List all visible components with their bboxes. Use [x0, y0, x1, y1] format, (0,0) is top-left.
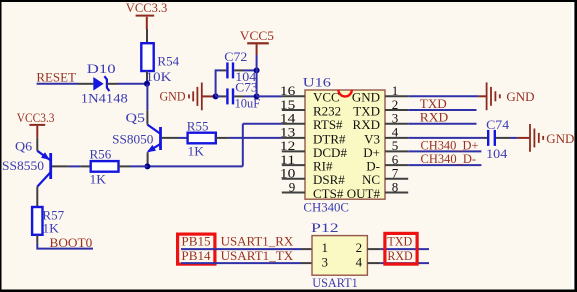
svg-text:R56: R56: [90, 146, 112, 161]
resistor R56: [90, 146, 119, 186]
wire Q6 collector down: [36, 187, 38, 207]
red highlight box PB15/PB14: [178, 234, 215, 264]
svg-text:4: 4: [356, 254, 363, 269]
ground GND (middle, C72/C73): [160, 83, 216, 111]
svg-text:USART1: USART1: [312, 275, 357, 290]
svg-text:BOOT0: BOOT0: [50, 235, 93, 250]
svg-text:VCC5: VCC5: [240, 28, 274, 43]
svg-text:VCC3.3: VCC3.3: [17, 110, 55, 125]
svg-text:Q5: Q5: [126, 110, 146, 125]
chip left pin names: [313, 90, 347, 201]
chip right pin numbers: [392, 83, 399, 194]
chip right pins 1..8: [385, 96, 408, 192]
node junction R54/D10/Q5: [144, 81, 150, 87]
svg-text:9: 9: [289, 179, 296, 194]
wire Q5 base to R55: [178, 137, 187, 139]
resistor R54: [141, 43, 179, 84]
red highlight box TXD/RXD: [385, 233, 417, 264]
wire pin4 to C74: [408, 137, 483, 139]
svg-text:1K: 1K: [42, 220, 59, 235]
svg-text:TXD: TXD: [420, 96, 447, 111]
power port VCC3.3 (left, over Q6): [17, 110, 55, 138]
wire P12 pin4 to RXD: [381, 262, 429, 264]
frame border right: [574, 0, 577, 292]
svg-text:GND: GND: [160, 88, 186, 103]
svg-text:RXD: RXD: [353, 117, 380, 132]
svg-text:TXD: TXD: [387, 234, 412, 249]
connector P12 USART1: [311, 220, 367, 290]
wire VCC5 down: [256, 55, 258, 96]
wire R57 bottom pin: [36, 235, 38, 244]
svg-text:USART1_TX: USART1_TX: [221, 248, 294, 263]
svg-text:8: 8: [392, 179, 399, 194]
svg-text:GND: GND: [546, 131, 574, 146]
svg-text:2: 2: [356, 240, 363, 255]
wire R54 bottom pin: [146, 71, 148, 80]
svg-text:D10: D10: [87, 61, 116, 76]
power port VCC3.3 (top, over R54): [126, 0, 168, 29]
node junction Q5 emitter / R56: [144, 163, 150, 169]
svg-text:RTS#: RTS#: [313, 117, 343, 132]
svg-text:14: 14: [280, 111, 296, 126]
ground GND (right of pin1): [478, 82, 534, 110]
frame border left: [0, 0, 2, 292]
wire R56 right pin: [119, 165, 131, 167]
svg-text:RESET: RESET: [36, 70, 76, 85]
node junction C73/pin16: [254, 93, 260, 99]
svg-text:C74: C74: [486, 117, 510, 132]
svg-text:PB14: PB14: [181, 248, 211, 263]
svg-text:C73: C73: [235, 80, 257, 95]
op IC U16 CH340C body: [303, 74, 385, 214]
chip right pin names: [347, 90, 381, 201]
wire BOOT0: [37, 244, 93, 249]
svg-text:SS8550: SS8550: [2, 158, 44, 173]
svg-text:10K: 10K: [146, 69, 172, 84]
resistor R55: [187, 119, 216, 159]
wire Q5 emitter down: [147, 152, 149, 166]
wire C74 to GND: [510, 137, 517, 139]
transistor Q5 SS8050: [112, 110, 178, 152]
chip left pins 16..9: [282, 96, 305, 192]
wire PB15 row: [181, 248, 301, 250]
wire junction down to Q5 collector: [146, 84, 148, 111]
diode D10 1N4148: [78, 61, 128, 106]
wire VCC3.3 to R54: [146, 29, 148, 43]
resistor R57: [32, 207, 64, 235]
wire R55 right pin: [216, 137, 229, 139]
svg-text:USART1_RX: USART1_RX: [221, 234, 294, 249]
wire junction up and to C72: [216, 70, 221, 96]
svg-text:RXD: RXD: [387, 248, 412, 263]
capacitor C72: [221, 49, 257, 84]
svg-text:1K: 1K: [90, 172, 107, 187]
wire junction to chip pin 16: [257, 95, 282, 97]
P12 right pins: [367, 248, 380, 250]
svg-text:1: 1: [321, 240, 328, 255]
svg-text:CH340_D-: CH340_D-: [421, 151, 477, 166]
capacitor C73: [221, 80, 260, 111]
svg-text:CH340C: CH340C: [303, 199, 349, 214]
frame border top: [0, 0, 577, 2]
svg-text:3: 3: [392, 111, 399, 126]
svg-text:GND: GND: [506, 89, 534, 104]
svg-text:1K: 1K: [188, 143, 205, 158]
transistor Q6 SS8550: [2, 138, 69, 186]
wire pin3 RXD: [408, 123, 476, 125]
wire R55 to chip pin 13: [229, 137, 282, 139]
wire Q6 base to R56: [69, 165, 81, 167]
frame border bottom: [0, 290, 577, 292]
wire pin5 CH340 D+: [408, 150, 481, 152]
svg-text:R55: R55: [187, 119, 209, 134]
wire pin2 TXD: [408, 109, 476, 111]
svg-text:104: 104: [486, 146, 508, 161]
svg-text:1N4148: 1N4148: [81, 91, 128, 106]
wire chip pin 14 left then down then left to emitter junction: [147, 124, 281, 167]
wire PB14 row: [181, 262, 301, 264]
wire P12 pin2 to TXD: [381, 248, 429, 250]
svg-text:VCC3.3: VCC3.3: [126, 0, 168, 15]
svg-text:R54: R54: [157, 54, 179, 69]
wire C73 to VCC5 line: [244, 95, 257, 97]
svg-text:Q6: Q6: [15, 138, 33, 153]
node junction GND/C72/C73: [213, 93, 219, 99]
svg-text:SS8050: SS8050: [112, 132, 153, 147]
svg-text:3: 3: [321, 254, 328, 269]
capacitor C74: [483, 117, 510, 161]
wire D10 to junction: [118, 83, 147, 85]
node junction C72/VCC5: [254, 67, 260, 73]
svg-text:CTS#: CTS#: [313, 186, 344, 201]
svg-text:OUT#: OUT#: [347, 186, 381, 201]
chip notch arc (red): [338, 90, 351, 97]
wire GND junction to C73: [216, 95, 221, 97]
wire VCC3.3 to Q6 emitter: [36, 138, 38, 151]
wire RESET to D10: [37, 83, 78, 85]
chip left pin numbers: [280, 83, 296, 194]
svg-text:P12: P12: [311, 220, 339, 235]
wire pin6 CH340 D-: [408, 164, 481, 166]
power port VCC5: [240, 28, 274, 55]
svg-text:PB15: PB15: [181, 234, 210, 249]
ground GND (right of C74): [517, 124, 574, 152]
svg-text:U16: U16: [303, 74, 332, 89]
wire C72 to VCC5 line: [244, 69, 257, 71]
svg-text:C72: C72: [224, 49, 247, 64]
svg-text:RXD: RXD: [420, 110, 448, 125]
wire pin1 to GND: [408, 95, 478, 97]
